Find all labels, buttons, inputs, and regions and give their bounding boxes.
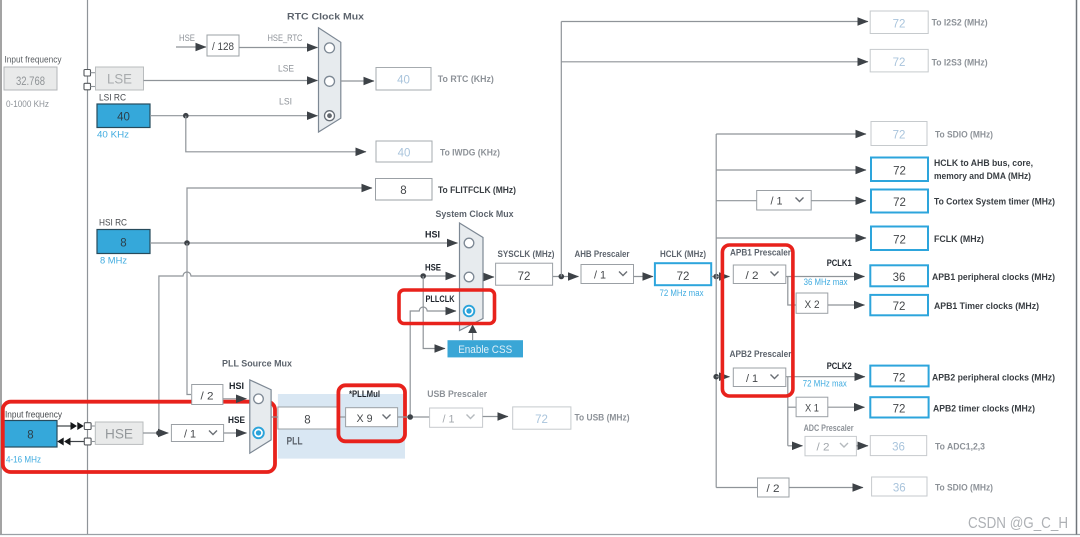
label To Cortex System timer (MHz): [934, 197, 1055, 208]
svg-text:72: 72: [518, 271, 531, 283]
clock sources bus line: [87, 0, 89, 534]
svg-text:PLL Source Mux: PLL Source Mux: [222, 359, 293, 370]
title PLL Source Mux: [222, 359, 293, 370]
svg-text:40 KHz: 40 KHz: [97, 130, 129, 141]
svg-text:To IWDG (KHz): To IWDG (KHz): [440, 148, 500, 159]
wire PLL out to USB prescaler: [398, 416, 430, 418]
wire PLLCLK riser to sysmux with hop: [410, 307, 456, 417]
svg-text:To SDIO (MHz): To SDIO (MHz): [935, 483, 993, 494]
divider /128: [207, 35, 239, 56]
dropdown AHB prescaler /1: [581, 265, 634, 284]
box APB2 peripheral 72: [870, 366, 928, 387]
svg-text:APB2 Prescaler: APB2 Prescaler: [730, 349, 792, 360]
label To ADC1,2,3: [935, 442, 985, 453]
svg-text:USB Prescaler: USB Prescaler: [427, 389, 487, 400]
label To USB (MHz): [575, 413, 630, 424]
label APB2 Prescaler: [730, 349, 792, 360]
label 40 KHz: [97, 130, 129, 141]
dropdown cortex /1: [757, 191, 812, 211]
wire APB bus down: [715, 277, 717, 488]
label LSI (wire): [279, 97, 292, 108]
svg-text:72: 72: [893, 373, 906, 385]
title RTC Clock Mux: [287, 12, 365, 23]
label AHB Prescaler: [575, 249, 630, 260]
svg-text:To ADC1,2,3: To ADC1,2,3: [935, 442, 985, 453]
svg-text:/ 1: / 1: [746, 373, 758, 385]
wire HSE return double arrow left: [57, 438, 84, 446]
wire ADC branch arrow: [788, 445, 803, 447]
wire LSI to IWDG: [186, 116, 366, 152]
svg-text:8: 8: [27, 430, 33, 442]
wire APB2 to box 72: [786, 376, 865, 378]
svg-text:Input frequency: Input frequency: [5, 410, 62, 421]
svg-text:ADC Prescaler: ADC Prescaler: [804, 423, 854, 434]
svg-text:8 MHz: 8 MHz: [100, 256, 127, 267]
radio pllmux HSE selected: [253, 428, 264, 439]
svg-text:To I2S2 (MHz): To I2S2 (MHz): [932, 18, 988, 29]
wire APB1 to X2: [788, 277, 796, 306]
svg-text:To SDIO (MHz): To SDIO (MHz): [935, 130, 993, 141]
svg-text:72: 72: [893, 235, 906, 247]
svg-text:36 MHz max: 36 MHz max: [804, 277, 848, 287]
label 72 MHz max (HCLK): [660, 288, 704, 298]
divider /2 (HSI to PLL): [192, 385, 223, 405]
label To I2S2 (MHz): [932, 18, 988, 29]
label HCLK to AHB bus core memory and DMA: [934, 158, 1033, 182]
label LSI RC: [99, 93, 126, 104]
label USB Prescaler: [427, 389, 487, 400]
svg-text:PLLCLK: PLLCLK: [426, 294, 455, 305]
box HSE: [95, 422, 143, 444]
box cortex timer 72: [871, 190, 928, 213]
svg-text:APB2 timer clocks (MHz): APB2 timer clocks (MHz): [933, 404, 1035, 415]
svg-text:4-16 MHz: 4-16 MHz: [6, 455, 41, 466]
wire HSI to FLITFCLK: [187, 188, 372, 243]
red highlight PLLCLK: [399, 290, 495, 324]
svg-text:HSE: HSE: [105, 427, 133, 442]
dropdown ADC /2 disabled: [805, 436, 856, 455]
wire square to LSE box bottom: [91, 86, 96, 88]
svg-text:72: 72: [893, 166, 906, 178]
svg-text:CSDN @G_C_H: CSDN @G_C_H: [968, 515, 1068, 532]
label PLL: [287, 436, 303, 448]
svg-text:To RTC (KHz): To RTC (KHz): [438, 74, 494, 85]
box To SDIO 36: [872, 477, 927, 496]
wire I2S riser: [560, 22, 562, 277]
svg-text:Enable CSS: Enable CSS: [458, 344, 512, 356]
label PCLK2: [827, 361, 852, 372]
svg-text:/ 2: / 2: [746, 270, 759, 282]
label HSE_RTC: [268, 33, 303, 44]
wire input to HSE double arrow right: [57, 422, 84, 430]
svg-text:LSI RC: LSI RC: [99, 93, 126, 104]
svg-text:36: 36: [893, 272, 906, 284]
wire HSI down to PLL /2: [187, 243, 191, 395]
svg-text:/ 128: / 128: [212, 41, 234, 53]
label PCLK1: [827, 258, 853, 269]
svg-text:72: 72: [893, 19, 906, 31]
box APB1 timer 72: [870, 295, 928, 315]
junction APB2: [713, 374, 719, 380]
svg-text:HSE: HSE: [425, 263, 441, 274]
wire cortex dropdown to box: [811, 200, 866, 202]
svg-text:8: 8: [120, 238, 126, 250]
wire APB2 to X1 and ADC riser: [787, 377, 789, 446]
svg-text:HSI RC: HSI RC: [99, 218, 127, 229]
label To IWDG (KHz): [440, 148, 500, 159]
multiplier X1: [796, 397, 828, 417]
wire LSE to RTC mux: [144, 80, 318, 82]
pin square LSE bottom: [84, 83, 91, 90]
junction HSE out: [156, 430, 162, 436]
wire HSE box to /1: [143, 432, 168, 434]
svg-text:PCLK1: PCLK1: [827, 258, 853, 269]
radio pllmux HSI: [254, 394, 264, 404]
svg-text:72: 72: [893, 130, 906, 142]
red highlight HSE path: [3, 402, 275, 472]
box To RTC value 40: [376, 68, 431, 91]
box To I2S3 72: [870, 49, 928, 72]
svg-text:72: 72: [893, 404, 906, 416]
svg-text:40: 40: [397, 75, 410, 87]
wire X1 to box 72: [828, 406, 865, 408]
wire square to HSE box bottom: [91, 441, 95, 443]
wire HSE junction down to Enable CSS: [423, 276, 445, 349]
svg-text:To I2S3 (MHz): To I2S3 (MHz): [932, 58, 988, 69]
label SYSCLK (MHz): [498, 249, 555, 260]
svg-text:/ 1: / 1: [443, 413, 455, 425]
wire to cortex prescaler: [716, 200, 757, 202]
svg-text:PLL: PLL: [287, 436, 303, 448]
svg-text:8: 8: [400, 185, 406, 197]
svg-text:/ 1: / 1: [594, 270, 606, 282]
svg-text:APB1 Prescaler: APB1 Prescaler: [730, 248, 791, 259]
box To SDIO 72: [871, 122, 927, 146]
label APB2 timer clocks (MHz): [933, 404, 1035, 415]
box HSI RC 8: [97, 230, 150, 254]
box APB2 timer 72: [870, 397, 928, 417]
wire square to LSE box top: [91, 72, 96, 74]
svg-text:HCLK (MHz): HCLK (MHz): [660, 249, 706, 260]
wire HSE stub to /128: [176, 46, 206, 48]
box To ADC 36: [870, 436, 926, 456]
box To FLITFCLK value 8: [376, 179, 433, 201]
label LSE (wire): [278, 64, 294, 75]
box HCLK 72: [655, 263, 711, 285]
wire HCLK to bus: [711, 276, 716, 278]
title System Clock Mux: [436, 209, 515, 220]
svg-text:72 MHz max: 72 MHz max: [803, 379, 847, 389]
wire to HCLK AHB: [716, 169, 866, 171]
radio sysmux HSE: [464, 272, 474, 282]
radio RTC input HSE_RTC: [325, 43, 335, 53]
svg-text:Input frequency: Input frequency: [5, 55, 62, 66]
svg-text:72: 72: [677, 271, 690, 283]
label APB1 Prescaler: [730, 248, 791, 259]
wire HSI to system clock mux: [150, 242, 458, 244]
label HSI (sysmux): [425, 230, 440, 241]
svg-text:memory and DMA (MHz): memory and DMA (MHz): [934, 171, 1031, 182]
box input frequency 32.768: [4, 67, 57, 90]
label Input frequency (top): [5, 55, 62, 66]
wire /128 to RTC mux: [239, 47, 318, 49]
svg-text:HSI: HSI: [229, 381, 244, 392]
box APB1 peripheral 36: [870, 265, 928, 286]
mux System Clock Mux: [460, 223, 484, 331]
svg-text:72: 72: [893, 57, 906, 69]
box PLL input 8: [278, 407, 337, 429]
junction HSI branch: [184, 240, 190, 246]
svg-text:System Clock Mux: System Clock Mux: [436, 209, 515, 220]
junction LSI branch: [183, 113, 189, 119]
svg-text:8: 8: [304, 415, 310, 427]
box To I2S2 72: [870, 11, 928, 34]
wire X2 to box 72: [828, 304, 865, 306]
svg-text:LSE: LSE: [278, 64, 294, 75]
svg-text:LSI: LSI: [279, 97, 292, 108]
junction SYSCLK to I2S: [559, 274, 565, 280]
wire ADC dropdown to box 36: [856, 445, 868, 447]
svg-text:72: 72: [893, 301, 906, 313]
svg-text:To USB (MHz): To USB (MHz): [575, 413, 630, 424]
svg-text:APB1 peripheral clocks (MHz): APB1 peripheral clocks (MHz): [932, 272, 1055, 283]
svg-text:40: 40: [117, 112, 130, 124]
wire sysmux to SYSCLK box: [483, 276, 494, 278]
svg-text:FCLK (MHz): FCLK (MHz): [934, 234, 984, 245]
button Enable CSS: [448, 340, 524, 357]
label 0-1000 KHz: [6, 99, 49, 110]
svg-text:PCLK2: PCLK2: [827, 361, 852, 372]
box LSE: [96, 67, 144, 90]
svg-text:/ 2: / 2: [767, 483, 780, 495]
label APB1 Timer clocks (MHz): [934, 301, 1039, 312]
svg-text:HSE_RTC: HSE_RTC: [268, 33, 303, 44]
svg-text:LSE: LSE: [107, 72, 132, 87]
left panel border: [0, 0, 2, 534]
svg-text:32.768: 32.768: [16, 76, 45, 88]
wire pll mux to box 8: [271, 416, 278, 418]
box HCLK AHB 72: [871, 158, 928, 182]
label APB2 peripheral clocks (MHz): [932, 373, 1055, 384]
label ADC Prescaler: [804, 423, 854, 434]
svg-text:*PLLMul: *PLLMul: [349, 389, 380, 400]
label HCLK (MHz): [660, 249, 706, 260]
mux RTC Clock Mux: [319, 28, 341, 132]
box LSI RC 40: [97, 104, 150, 128]
wire AHB to HCLK box: [634, 276, 654, 278]
mux PLL Source Mux: [250, 380, 271, 453]
red highlight APB prescalers: [722, 245, 793, 396]
svg-text:To Cortex System timer (MHz): To Cortex System timer (MHz): [934, 197, 1055, 208]
label To RTC (KHz): [438, 74, 494, 85]
label 8 MHz: [100, 256, 127, 267]
PLL block background: [278, 394, 405, 459]
dropdown HSE /1: [171, 425, 223, 442]
wire square to HSE box top: [91, 425, 95, 427]
wire RTC mux to To RTC box: [341, 80, 374, 82]
wire USB prescaler to box: [483, 416, 508, 418]
svg-text:HCLK to AHB bus, core,: HCLK to AHB bus, core,: [934, 158, 1033, 169]
svg-text:/ 2: / 2: [817, 442, 830, 454]
box FCLK 72: [871, 227, 928, 251]
junction PLL out: [407, 414, 413, 420]
wire box 8 to PLLMul: [337, 416, 346, 418]
label 4-16 MHz: [6, 455, 41, 466]
watermark CSDN: [968, 515, 1068, 532]
wire to SDIO top: [716, 133, 866, 135]
wire /2 to SDIO box: [789, 487, 863, 489]
label HSI RC: [99, 218, 127, 229]
red highlight PLLMul: [338, 385, 405, 441]
svg-text:/ 1: / 1: [184, 429, 196, 441]
junction HCLK bus: [713, 274, 719, 280]
box To USB 72: [513, 407, 571, 429]
label Input frequency (bottom): [5, 410, 62, 421]
svg-text:72: 72: [893, 197, 906, 209]
wire /1 to PLL mux: [224, 432, 247, 434]
svg-text:72 MHz max: 72 MHz max: [660, 288, 704, 298]
svg-text:APB1 Timer clocks (MHz): APB1 Timer clocks (MHz): [934, 301, 1039, 312]
wire HSE riser to sysmux with hop: [159, 272, 456, 433]
dropdown APB1 /2: [733, 265, 786, 284]
wire /2 to PLL mux: [223, 398, 247, 400]
box To IWDG value 40: [376, 141, 432, 162]
radio RTC input LSI selected: [325, 111, 335, 121]
svg-text:72: 72: [535, 414, 548, 426]
bottom border: [0, 534, 1080, 536]
radio sysmux PLLCLK selected: [464, 306, 475, 317]
svg-text:RTC Clock Mux: RTC Clock Mux: [287, 12, 365, 23]
wire LSI to RTC mux: [150, 115, 318, 117]
multiplier X2: [796, 293, 828, 313]
label HSI (pll mux): [229, 381, 244, 392]
label FCLK (MHz): [934, 234, 984, 245]
label PLLCLK (sysmux): [426, 294, 455, 305]
radio sysmux HSI: [464, 238, 474, 248]
svg-text:To FLITFCLK (MHz): To FLITFCLK (MHz): [438, 185, 516, 196]
svg-text:/ 2: / 2: [201, 391, 214, 403]
label To I2S3 (MHz): [932, 58, 988, 69]
dropdown PLLMul X9: [346, 408, 398, 427]
svg-text:/ 1: / 1: [771, 196, 783, 208]
divider /2 SDIO: [758, 478, 790, 497]
box HSE input 8: [4, 421, 57, 448]
label HSE (rtc stub): [179, 33, 195, 44]
svg-text:40: 40: [398, 148, 411, 160]
label APB1 peripheral clocks (MHz): [932, 272, 1055, 283]
junction HSE to CSS: [420, 273, 426, 279]
label HSE (sysmux): [425, 263, 441, 274]
label 36 MHz max: [804, 277, 848, 287]
svg-text:AHB Prescaler: AHB Prescaler: [575, 249, 630, 260]
svg-text:HSE: HSE: [228, 415, 245, 426]
svg-text:X 9: X 9: [357, 413, 373, 425]
svg-text:0-1000 KHz: 0-1000 KHz: [6, 99, 49, 110]
wire bus to APB1 prescaler: [716, 276, 729, 278]
svg-text:HSE: HSE: [179, 33, 195, 44]
wire bus to APB2 prescaler: [716, 376, 729, 378]
label To SDIO (MHz) bottom: [935, 483, 993, 494]
box SYSCLK 72: [496, 263, 553, 285]
dropdown USB /1 disabled: [430, 408, 483, 427]
label To FLITFCLK (MHz): [438, 185, 516, 196]
right panel border: [1076, 0, 1078, 535]
svg-text:36: 36: [892, 442, 905, 454]
wire APB1 to box 36: [786, 276, 865, 278]
label 72 MHz max (APB2): [803, 379, 847, 389]
svg-text:36: 36: [893, 483, 906, 495]
wire SYSCLK to AHB prescaler: [553, 276, 579, 278]
svg-text:SYSCLK (MHz): SYSCLK (MHz): [498, 249, 555, 260]
dropdown APB2 /1: [733, 368, 786, 387]
pin square HSE bottom: [84, 438, 91, 445]
label HSE (pll mux): [228, 415, 245, 426]
label *PLLMul: [349, 389, 380, 400]
svg-text:X 2: X 2: [805, 299, 820, 311]
svg-text:HSI: HSI: [425, 230, 440, 241]
radio RTC input LSE: [325, 76, 335, 86]
wire AHB riser up: [715, 134, 717, 277]
svg-text:APB2 peripheral clocks (MHz): APB2 peripheral clocks (MHz): [932, 373, 1055, 384]
pin square HSE top: [84, 423, 91, 430]
wire bus to SDIO /2: [716, 487, 757, 489]
wire to I2S2: [561, 21, 868, 23]
label To SDIO (MHz): [935, 130, 993, 141]
wire X1 branch: [788, 406, 796, 408]
pin square LSE top: [84, 70, 91, 77]
wire to I2S3: [561, 61, 868, 63]
svg-text:X 1: X 1: [805, 403, 819, 415]
wire to FCLK: [716, 237, 866, 239]
wire Enable CSS up arrow to mux: [468, 324, 477, 340]
